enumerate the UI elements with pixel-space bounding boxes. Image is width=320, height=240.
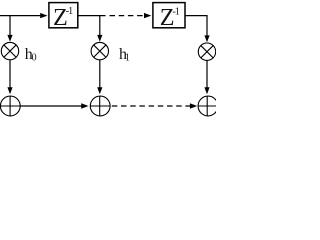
svg-text:Z-1: Z-1 xyxy=(160,4,180,31)
multiplier M2 xyxy=(91,42,108,59)
arrowhead into delay Z1 xyxy=(40,13,47,18)
adder A1 xyxy=(0,96,20,116)
adder A2 xyxy=(90,96,110,116)
wire: dashed A2 to A3 xyxy=(112,105,191,107)
delay block U1 Z^-1 xyxy=(49,3,78,28)
svg-text:h0: h0 xyxy=(25,46,37,64)
arrowhead into adder A3 xyxy=(190,103,197,108)
svg-text:h1: h1 xyxy=(119,46,130,64)
wire: Z2 output to column 3 xyxy=(185,16,207,37)
multiplier M3 xyxy=(198,43,215,60)
wire: M1 down to adder A1 xyxy=(9,60,11,88)
wire: input tap down to multiplier M1 xyxy=(9,16,11,36)
wire: tap down to multiplier M2 xyxy=(99,16,101,36)
arrowhead into adder A3 xyxy=(204,87,209,94)
arrowhead into multiplier M3 xyxy=(204,35,209,42)
multiplier M1 xyxy=(1,42,18,59)
wire: M2 down to adder A2 xyxy=(99,60,101,88)
wire: input rail into Z1 xyxy=(0,15,41,17)
arrowhead into multiplier M2 xyxy=(97,35,102,42)
arrowhead into delay Z2 xyxy=(144,13,151,18)
arrowhead into adder A1 xyxy=(7,87,12,94)
delay block U2 Z^-1 xyxy=(153,3,185,28)
arrowhead into adder A2 xyxy=(97,87,102,94)
adder A3 xyxy=(198,96,218,116)
wire: Z1 output rail xyxy=(78,15,105,17)
arrowhead into multiplier M1 xyxy=(7,35,12,42)
svg-text:Z-1: Z-1 xyxy=(53,4,73,31)
wire: A1 to A2 xyxy=(20,105,81,107)
arrowhead into adder A2 xyxy=(81,103,88,108)
wire: dashed rail toward Z2 xyxy=(110,15,145,17)
wire: M3 down to adder A3 xyxy=(206,60,208,88)
